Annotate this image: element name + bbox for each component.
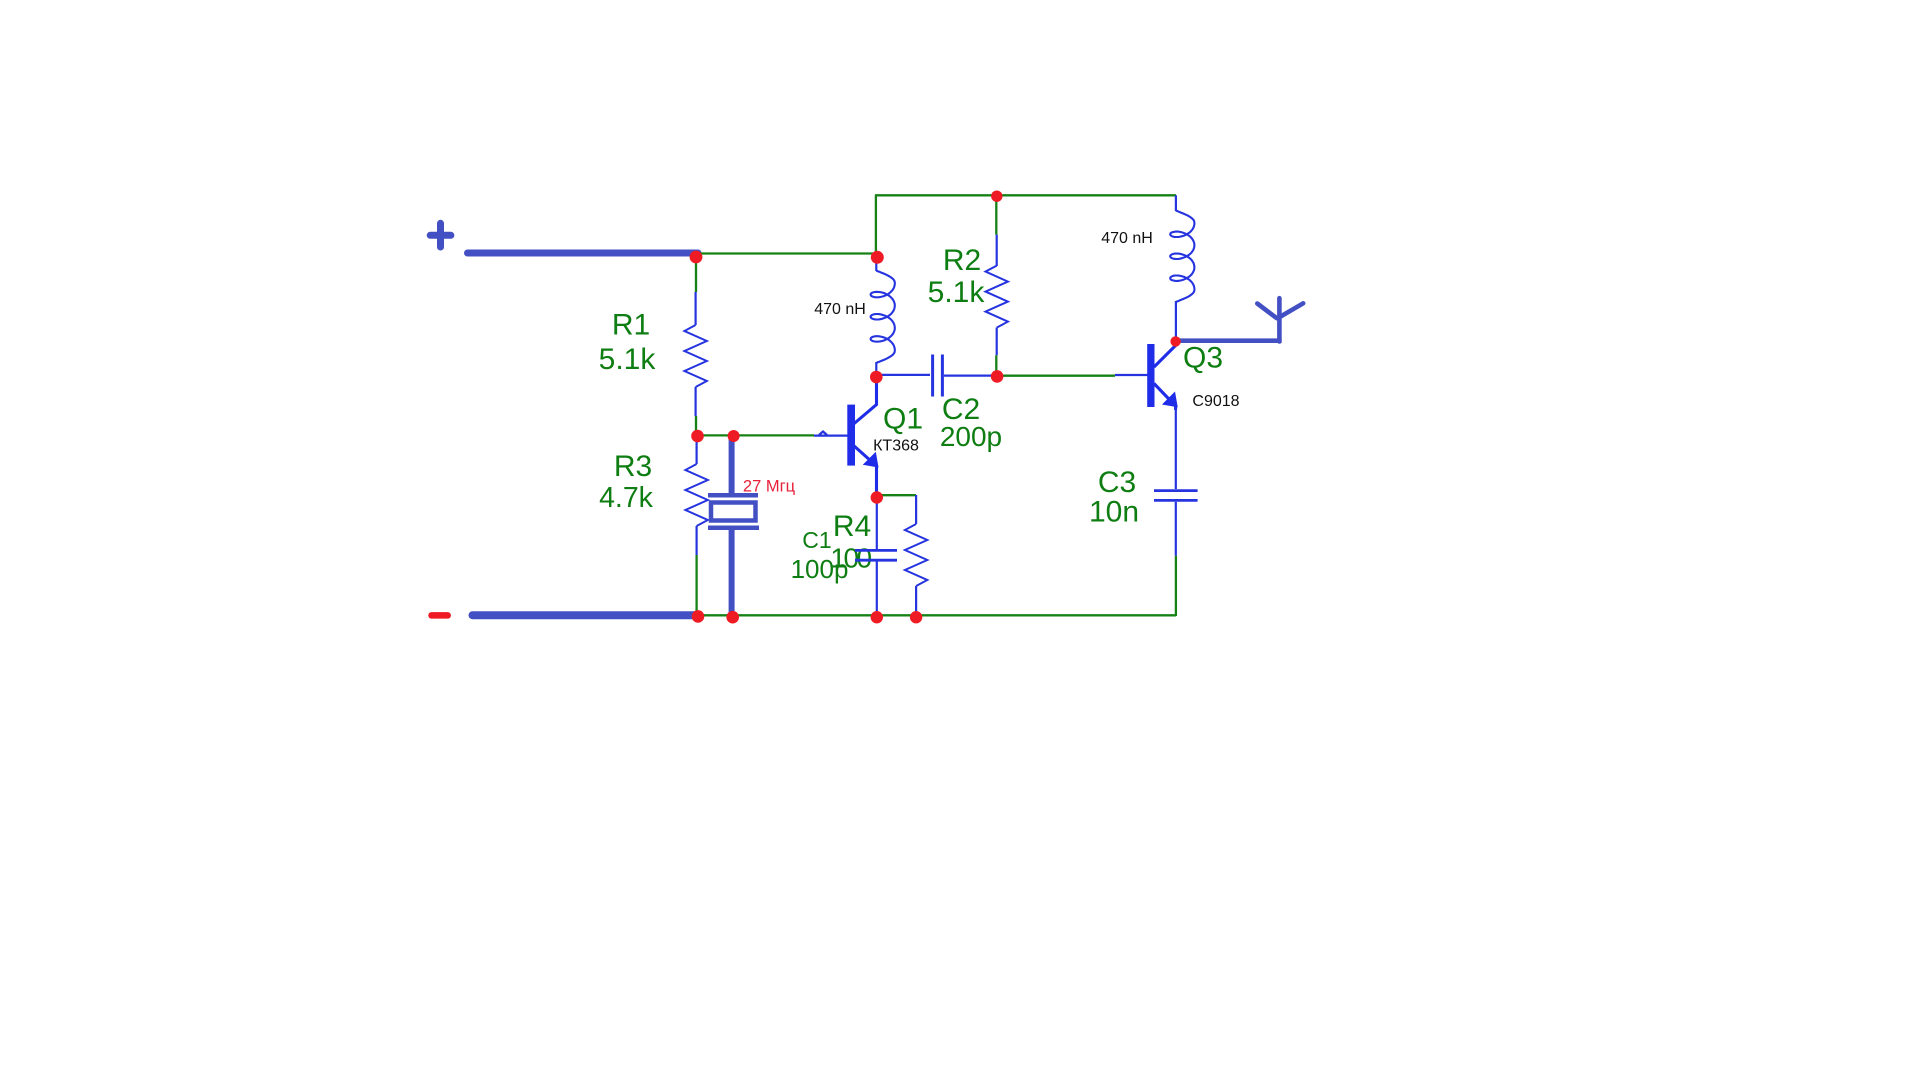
svg-text:R4: R4 xyxy=(833,510,871,543)
svg-text:4.7k: 4.7k xyxy=(599,482,654,514)
wire: vertical from top rail to coil-top node xyxy=(875,195,877,252)
inductor L1 470nH xyxy=(875,262,877,271)
wire: R1 lower green lead xyxy=(695,416,697,436)
svg-text:Q3: Q3 xyxy=(1183,342,1223,375)
plus terminal xyxy=(430,223,451,247)
wire: Q3 base blue segment xyxy=(1115,374,1148,376)
wire: R3 lower green lead xyxy=(695,555,697,615)
wire: R1 lower blue lead xyxy=(694,387,696,416)
resistor R4 xyxy=(905,524,927,586)
junction dots xyxy=(690,191,1181,624)
antenna feed wire xyxy=(1179,338,1282,343)
wire: top rail xyxy=(875,194,1176,196)
wire: R3 lower blue lead xyxy=(695,526,697,555)
wire: C2 right lead xyxy=(944,375,996,377)
svg-text:10n: 10n xyxy=(1089,496,1139,529)
capacitor C2 plates xyxy=(933,355,943,397)
svg-text:C3: C3 xyxy=(1098,466,1136,499)
svg-text:200p: 200p xyxy=(940,421,1002,452)
minus terminal xyxy=(432,612,448,619)
node: Q3 collector / antenna xyxy=(1170,336,1180,346)
svg-text:C9018: C9018 xyxy=(1192,393,1239,410)
svg-text:5.1k: 5.1k xyxy=(599,343,657,376)
svg-text:470 nH: 470 nH xyxy=(814,301,866,318)
capacitor C1 plates xyxy=(855,550,897,560)
transistor Q3 xyxy=(1147,343,1177,410)
capacitor C3 bottom lead xyxy=(1175,502,1177,556)
resistor R1 xyxy=(684,325,706,387)
crystal X1 top plate xyxy=(708,493,758,498)
wire: R1 upper blue lead xyxy=(694,292,696,325)
svg-text:КТ368: КТ368 xyxy=(873,438,919,455)
node: bottom C1 xyxy=(871,611,883,623)
wire: R2 top green lead xyxy=(995,196,997,235)
wire: R1 upper green lead xyxy=(695,257,697,292)
capacitor C3 top lead xyxy=(1175,408,1177,489)
crystal X1 body xyxy=(711,503,756,521)
wire: R4 upper lead xyxy=(915,495,917,524)
crystal X1 upper lead xyxy=(729,437,735,493)
node: bottom crystal xyxy=(726,611,739,624)
node: R1/R3/base xyxy=(691,430,704,443)
wire: C3 to bottom rail xyxy=(1175,556,1177,616)
crystal X1 bottom plate xyxy=(708,525,759,530)
node: Q1 emitter xyxy=(871,491,883,503)
svg-text:R2: R2 xyxy=(943,244,981,277)
svg-text:C1: C1 xyxy=(802,527,831,553)
wire: R2 lower green lead xyxy=(995,355,997,372)
wire: R3 upper blue lead xyxy=(695,438,697,464)
wire: R4 lower lead xyxy=(915,586,917,616)
svg-text:5.1k: 5.1k xyxy=(928,276,986,309)
negative supply wire xyxy=(473,611,698,619)
svg-text:R3: R3 xyxy=(614,450,652,483)
node: crystal top xyxy=(728,430,740,442)
capacitor C1 top lead xyxy=(876,497,878,549)
svg-text:R1: R1 xyxy=(612,309,650,342)
wire: bottom rail xyxy=(697,614,1176,616)
node: L1 bottom / C2 xyxy=(870,371,883,384)
node: R2 bottom / C2 right xyxy=(991,370,1004,383)
wire: plus node to coil top xyxy=(699,252,876,254)
wire: base node blue segment to Q1 xyxy=(814,432,848,436)
node: top rail / R2 xyxy=(991,191,1002,202)
wire: R2 lower blue lead xyxy=(996,328,998,356)
wire: emitter node to R4 top xyxy=(877,494,916,496)
positive supply wire xyxy=(468,250,699,257)
antenna xyxy=(1257,298,1303,341)
node: plus/R1 xyxy=(690,251,703,264)
node: bottom R3 xyxy=(692,610,705,623)
transistor Q1 xyxy=(847,382,878,495)
node: bottom R4 xyxy=(910,611,922,623)
wire: base node green segment xyxy=(697,434,814,436)
wire: C2 left lead xyxy=(877,374,930,376)
wire: R2 upper blue lead xyxy=(996,235,998,266)
capacitor C3 plates xyxy=(1154,491,1198,501)
node: coil L1 top xyxy=(871,251,884,264)
resistor R3 xyxy=(685,464,707,526)
capacitor C1 bottom lead xyxy=(876,562,878,617)
svg-text:Q1: Q1 xyxy=(883,403,923,436)
svg-text:100p: 100p xyxy=(791,554,849,584)
crystal X1 lower lead xyxy=(729,530,735,619)
resistor R2 xyxy=(986,266,1008,328)
svg-text:470 nH: 470 nH xyxy=(1101,230,1153,247)
svg-text:27 Мгц: 27 Мгц xyxy=(743,478,796,496)
inductor L2 470nH xyxy=(1175,195,1177,211)
wire: C2 node to Q3 base green xyxy=(997,375,1115,377)
